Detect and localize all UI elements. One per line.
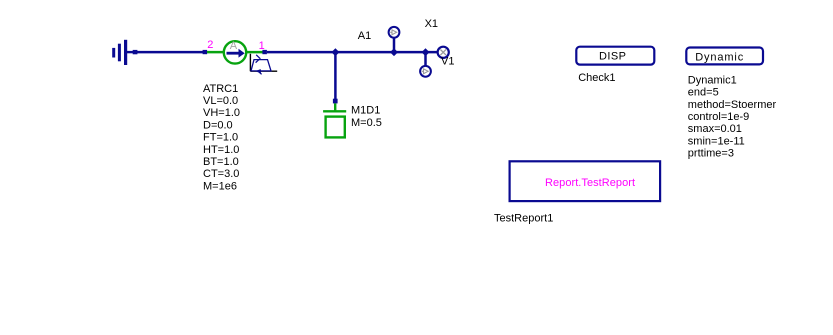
Report.TestReport block xyxy=(510,161,660,201)
svg-text:DISP: DISP xyxy=(599,51,626,63)
svg-text:BT=1.0: BT=1.0 xyxy=(203,156,239,168)
DISP block Check1 xyxy=(576,47,654,65)
svg-text:smax=0.01: smax=0.01 xyxy=(688,123,742,135)
svg-text:VL=0.0: VL=0.0 xyxy=(203,95,238,107)
wire: ground to ATRC1 pin 2 xyxy=(137,51,203,54)
svg-text:end=5: end=5 xyxy=(688,87,719,99)
current sensor circle ATRC1 xyxy=(224,41,246,63)
ground xyxy=(112,40,133,65)
wire: green stub pin 2 to sensor xyxy=(207,51,224,54)
svg-text:A1: A1 xyxy=(358,30,371,42)
svg-text:2: 2 xyxy=(207,39,213,51)
svg-text:M=1e6: M=1e6 xyxy=(203,180,237,192)
svg-text:FT=1.0: FT=1.0 xyxy=(203,132,238,144)
svg-text:prttime=3: prttime=3 xyxy=(688,148,734,160)
viewer probe A1 xyxy=(389,27,400,52)
hysteresis icon of ATRC1 xyxy=(250,54,277,75)
svg-text:V1: V1 xyxy=(441,56,454,68)
svg-text:M1D1: M1D1 xyxy=(351,105,380,117)
ground pin square xyxy=(133,50,138,54)
svg-text:X1: X1 xyxy=(425,18,438,30)
svg-text:control=1e-9: control=1e-9 xyxy=(688,111,749,123)
svg-text:Dynamic: Dynamic xyxy=(695,51,744,63)
wire: branch down to M1D1 xyxy=(334,52,337,99)
wire: pin 1 to V1 xyxy=(267,51,438,54)
svg-text:TestReport1: TestReport1 xyxy=(494,212,553,224)
junction at probe A1 xyxy=(390,48,398,56)
svg-text:VH=1.0: VH=1.0 xyxy=(203,107,240,119)
node junction at M1D1 branch xyxy=(331,48,339,56)
ATRC1 pin 1 square xyxy=(262,50,267,54)
voltage source V1 xyxy=(438,47,449,58)
svg-text:ATRC1: ATRC1 xyxy=(203,83,238,95)
svg-text:Report.TestReport: Report.TestReport xyxy=(545,177,635,189)
svg-text:D=0.0: D=0.0 xyxy=(203,119,233,131)
M1D1 pin square xyxy=(333,99,338,104)
ATRC1 pin 2 square xyxy=(203,50,208,54)
svg-text:smin=1e-11: smin=1e-11 xyxy=(688,135,745,147)
sensor arrow xyxy=(227,49,245,58)
svg-text:Dynamic1: Dynamic1 xyxy=(688,74,737,86)
svg-text:Check1: Check1 xyxy=(578,72,615,84)
wire: green stub sensor to pin 1 xyxy=(247,51,264,54)
svg-text:HT=1.0: HT=1.0 xyxy=(203,144,239,156)
junction at probe X1 xyxy=(422,48,430,56)
viewer probe X1 xyxy=(420,52,431,77)
svg-text:A: A xyxy=(230,40,238,52)
svg-text:M=0.5: M=0.5 xyxy=(351,117,382,129)
M1D1 mass symbol xyxy=(323,103,346,137)
svg-text:method=Stoermer: method=Stoermer xyxy=(688,99,777,111)
Dynamic block xyxy=(686,48,763,65)
svg-text:CT=3.0: CT=3.0 xyxy=(203,168,239,180)
